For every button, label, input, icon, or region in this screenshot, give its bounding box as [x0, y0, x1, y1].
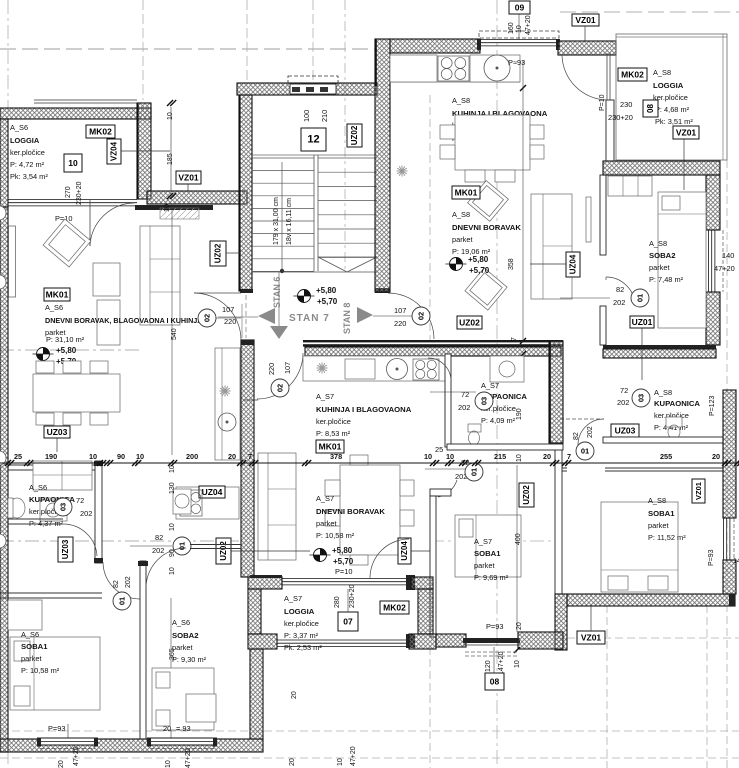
svg-text:20: 20 [58, 760, 65, 768]
kitchen star A_S8 [397, 170, 408, 172]
grid label box 07 [338, 612, 358, 631]
label box MK02 A_S7 loggia [380, 601, 409, 614]
level marker A_S6 [37, 348, 50, 361]
door A_S8 soba2 [606, 277, 635, 306]
kitchen counter A_S7 [303, 356, 447, 381]
wall loggia A_S6 top [0, 108, 151, 119]
svg-text:03: 03 [637, 394, 646, 402]
label box VZ01 recess [176, 171, 201, 184]
svg-text:A_S8: A_S8 [653, 68, 671, 77]
svg-text:SOBA1: SOBA1 [21, 642, 48, 651]
window A_S8 top [480, 39, 557, 41]
svg-text:UZ02: UZ02 [219, 541, 228, 561]
svg-text:A_S8: A_S8 [452, 210, 470, 219]
svg-text:DNEVNI BORAVAK: DNEVNI BORAVAK [452, 223, 521, 232]
svg-text:01: 01 [470, 468, 479, 476]
wall A_S7 loggia right corner [409, 634, 436, 649]
coffee table A_S6 [97, 300, 120, 345]
label box VZ01 bottom A_S8 [577, 631, 605, 644]
grid line vertical x143 top [142, 0, 144, 100]
grid line vertical x430 mid [429, 95, 431, 341]
label box UZ02 A_S8 mid [457, 316, 482, 329]
svg-text:SOBA1: SOBA1 [474, 549, 501, 558]
svg-text:10: 10 [68, 158, 78, 168]
wall below loggia A_S7 [250, 649, 263, 739]
closet A_S6 soba2 [186, 694, 216, 722]
door A_S7 entry [257, 353, 303, 399]
svg-text:02: 02 [417, 312, 426, 320]
label box VZ04 A_S6 [107, 139, 121, 164]
kitchen stove A_S8 [438, 56, 469, 81]
label box UZ02 stairwell [347, 124, 362, 147]
svg-text:VZ01: VZ01 [694, 482, 703, 500]
wc A_S8 [666, 417, 682, 427]
wall A_S8 bottom [567, 594, 735, 606]
svg-text:MK02: MK02 [621, 70, 644, 80]
svg-text:P: 31,10 m²: P: 31,10 m² [46, 335, 85, 344]
wall A_S6 bath bottom [8, 518, 63, 520]
svg-text:230+20: 230+20 [608, 113, 633, 122]
section line y541 right [430, 540, 560, 542]
svg-text:47+20: 47+20 [525, 15, 532, 35]
svg-text:A_S7: A_S7 [316, 494, 334, 503]
svg-text:MK02: MK02 [89, 127, 112, 137]
svg-text:UZ04: UZ04 [400, 541, 409, 561]
grid bubble 1 [0, 206, 6, 220]
door A_S7 loggia arc [370, 539, 409, 578]
shaft hatched below recess [160, 208, 199, 219]
svg-text:ker.pločice: ker.pločice [316, 417, 351, 426]
svg-text:10: 10 [424, 452, 432, 461]
svg-text:200: 200 [186, 452, 198, 461]
door A_S6 entry [194, 292, 241, 294]
wall A_S6 bath top [8, 464, 102, 466]
svg-text:P=123: P=123 [709, 395, 716, 416]
wall bottom band [0, 739, 263, 752]
wall A_S6 soba1/soba2 [140, 561, 146, 739]
svg-text:210: 210 [320, 110, 329, 122]
sofa A_S8 [531, 194, 572, 299]
wall A_S8 kupaonica top [603, 345, 716, 349]
svg-text:P: 8,53 m²: P: 8,53 m² [316, 429, 351, 438]
wall A_S7/A_S8 divider [549, 341, 563, 443]
svg-text:parket: parket [316, 519, 337, 528]
svg-text:230+20: 230+20 [76, 181, 83, 205]
wall A_S7 bath left [445, 354, 451, 447]
svg-text:220: 220 [224, 317, 236, 326]
door circle 02 A_S6 [198, 309, 216, 327]
svg-text:10: 10 [516, 25, 523, 33]
svg-text:LOGGIA: LOGGIA [653, 81, 684, 90]
svg-text:parket: parket [21, 654, 42, 663]
section line y541 [0, 540, 240, 542]
svg-text:220: 220 [394, 319, 406, 328]
window A_S7 loggia bottom [277, 639, 408, 641]
wall A_S8 soba2 right upper [706, 175, 720, 230]
svg-text:parket: parket [649, 263, 670, 272]
grid line horizontal y638 right [555, 637, 739, 639]
arrow down stan6 [270, 326, 288, 339]
svg-text:MK01: MK01 [455, 188, 478, 198]
svg-text:10: 10 [89, 452, 97, 461]
svg-text:130: 130 [169, 482, 176, 494]
svg-text:215: 215 [494, 452, 506, 461]
wall A_S8 loggia bottom [603, 161, 720, 175]
label box UZ01 A_S8 [630, 316, 654, 328]
svg-text:Pk: 3,54 m²: Pk: 3,54 m² [10, 172, 48, 181]
svg-text:A_S8: A_S8 [649, 239, 667, 248]
svg-text:280: 280 [334, 596, 341, 608]
wall A_S7 loggia top left corner [248, 577, 282, 589]
grid line vertical x430 bottom [429, 647, 431, 768]
svg-text:10: 10 [136, 452, 144, 461]
bed A_S6 soba2 [152, 668, 214, 730]
svg-text:parket: parket [172, 643, 193, 652]
svg-text:UZ03: UZ03 [47, 427, 68, 437]
window A_S8 soba2 [708, 230, 710, 292]
kitchen star A_S6 [220, 390, 231, 392]
svg-text:47+20: 47+20 [73, 746, 80, 766]
label box UZ04 A_S6 [199, 486, 225, 498]
svg-text:90: 90 [117, 452, 125, 461]
svg-text:202: 202 [458, 403, 470, 412]
door circle 01 soba2 [631, 289, 649, 307]
svg-text:10: 10 [446, 452, 454, 461]
label box UZ04 A_S7 [398, 538, 411, 564]
shower A_S6 [33, 461, 92, 490]
wall A_S6 soba1 top [0, 592, 102, 594]
label box MK02 loggia A_S6 [86, 125, 115, 138]
svg-text:parket: parket [474, 561, 495, 570]
kitchen star A_S7 [317, 367, 328, 369]
svg-text:MK01: MK01 [46, 290, 69, 300]
svg-text:P: 9,30 m²: P: 9,30 m² [172, 655, 207, 664]
svg-text:02: 02 [203, 314, 212, 322]
level marker A_S7 [314, 549, 327, 562]
wall A_S7 loggia corner sw [248, 634, 277, 649]
grid bubble 2 [0, 275, 6, 289]
svg-text:09: 09 [515, 3, 525, 13]
svg-text:P: 7,48 m²: P: 7,48 m² [649, 275, 684, 284]
svg-text:parket: parket [648, 521, 669, 530]
tv A_S8 [586, 197, 591, 242]
svg-text:72: 72 [620, 386, 628, 395]
grid line vertical x247 top [246, 0, 248, 83]
svg-text:VZ04: VZ04 [110, 141, 119, 161]
wall A_S7 soba1 bottom [436, 634, 466, 647]
svg-text:Pk: 2,53 m²: Pk: 2,53 m² [284, 643, 322, 652]
grid line vertical x707 bottom [706, 605, 708, 768]
sofa A_S7 [258, 453, 296, 560]
door jamb dashes A_S6 entry [245, 295, 247, 338]
svg-text:ker.pločice: ker.pločice [284, 619, 319, 628]
svg-text:MK02: MK02 [383, 603, 406, 613]
svg-text:10: 10 [337, 758, 344, 766]
window loggia A_S6 bottom [8, 199, 137, 201]
wall central below door [241, 340, 254, 577]
loggia A_S6 parapet line [34, 99, 137, 101]
label box VZ01 A_S8 loggia [673, 126, 699, 139]
dimension line main [0, 462, 739, 464]
grid line horizontal y49 [0, 48, 377, 50]
dining table A_S8 [455, 115, 530, 170]
svg-text:UZ02: UZ02 [214, 243, 223, 263]
svg-text:7: 7 [511, 337, 518, 341]
stair landing diagonals [318, 257, 347, 272]
svg-text:107: 107 [222, 305, 234, 314]
svg-text:A_S8: A_S8 [648, 496, 666, 505]
wall A_S8 soba1 top [562, 467, 567, 469]
svg-text:01: 01 [118, 597, 127, 605]
svg-text:A_S7: A_S7 [474, 537, 492, 546]
svg-text:SOBA2: SOBA2 [172, 631, 199, 640]
svg-text:A_S6: A_S6 [29, 483, 47, 492]
svg-text:120: 120 [485, 660, 492, 672]
svg-text:10: 10 [167, 112, 174, 120]
grid line vertical x313 top [312, 0, 314, 80]
svg-text:20: 20 [163, 724, 171, 733]
svg-text:KUPAONICA: KUPAONICA [654, 399, 700, 408]
wall A_S8 bottom step [555, 594, 567, 650]
wall A_S7 top black band [303, 340, 563, 342]
svg-text:= 93: = 93 [176, 724, 191, 733]
svg-text:VZ01: VZ01 [575, 15, 596, 25]
svg-text:20: 20 [712, 452, 720, 461]
door circle 03 A_S7 bath [475, 392, 493, 410]
wall A_S7 bath bottom [447, 444, 563, 450]
arrow right stan8 [357, 307, 373, 323]
svg-text:P: 3,37 m²: P: 3,37 m² [284, 631, 319, 640]
svg-text:47+20: 47+20 [185, 748, 192, 768]
svg-text:P: 9,69 m²: P: 9,69 m² [474, 573, 509, 582]
door circle 01 A_S6 soba1 [173, 537, 191, 555]
washing machine A_S6b [173, 489, 191, 514]
svg-text:P=93: P=93 [48, 724, 65, 733]
svg-text:20: 20 [516, 622, 523, 630]
svg-text:82: 82 [113, 580, 120, 588]
bed A_S8 soba2 [658, 192, 706, 328]
wall loggia A_S6 right [137, 103, 151, 199]
window A_S8 soba1 right [723, 518, 725, 560]
window bottom 2 [150, 738, 215, 746]
label box UZ03 A_S8 [611, 424, 639, 437]
grid line vertical x727 [726, 160, 728, 768]
svg-text:10: 10 [516, 454, 523, 462]
svg-text:KUHINJA I BLAGOVAONA: KUHINJA I BLAGOVAONA [316, 405, 412, 414]
grid line vertical x345 [344, 0, 346, 272]
svg-text:UZ03: UZ03 [615, 426, 636, 436]
label box UZ04 A_S8 [566, 252, 580, 277]
svg-text:A_S7: A_S7 [481, 381, 499, 390]
dining table A_S6 [33, 374, 120, 412]
svg-text:DNEVNI BORAVAK, BLAGOVAONA I K: DNEVNI BORAVAK, BLAGOVAONA I KUHINJA [45, 316, 202, 325]
svg-text:140: 140 [722, 251, 734, 260]
svg-text:255: 255 [660, 452, 672, 461]
svg-text:190: 190 [516, 408, 523, 420]
svg-text:UZ02: UZ02 [522, 485, 531, 505]
svg-text:P=93: P=93 [708, 549, 715, 566]
wall A_S6 soba2 top [190, 544, 241, 546]
svg-text:A_S6: A_S6 [45, 303, 63, 312]
svg-text:20: 20 [289, 758, 296, 766]
svg-text:10: 10 [164, 204, 171, 212]
kitchen stove A_S7 [413, 359, 439, 380]
label box UZ02 A_S7 soba1 [519, 483, 534, 507]
svg-text:+5,80: +5,80 [56, 346, 77, 355]
svg-text:A_S7: A_S7 [316, 392, 334, 401]
svg-text:VZ01: VZ01 [178, 173, 199, 183]
svg-text:10: 10 [169, 465, 176, 473]
svg-text:P=10: P=10 [335, 567, 352, 576]
wall black band below loggia A_S6 [135, 205, 213, 210]
svg-text:+5,80: +5,80 [468, 255, 489, 264]
wall A_S8 top [390, 39, 480, 53]
bed A_S8 soba1 [601, 502, 678, 592]
svg-text:03: 03 [480, 397, 489, 405]
wc A_S7 [468, 424, 481, 432]
door circle 01 A_S7 soba1 [465, 463, 483, 481]
svg-text:A_S6: A_S6 [21, 630, 39, 639]
kitchen counter A_S6 [215, 348, 240, 460]
svg-text:+5,80: +5,80 [332, 546, 353, 555]
svg-text:190: 190 [45, 452, 57, 461]
svg-text:P: 4,09 m²: P: 4,09 m² [481, 416, 516, 425]
label box 10 [64, 154, 82, 172]
wall A_S8 top right [558, 41, 616, 55]
level marker stairwell [298, 290, 311, 303]
svg-text:SOBA1: SOBA1 [648, 509, 675, 518]
svg-text:LOGGIA: LOGGIA [284, 607, 315, 616]
svg-text:UZ04: UZ04 [569, 254, 578, 274]
svg-text:A_S8: A_S8 [654, 388, 672, 397]
door circle 01 A_S8 soba1 [576, 442, 594, 460]
kitchen cabinet A_S7 [345, 359, 375, 379]
door A_S8 entry [388, 293, 434, 339]
svg-text:82: 82 [573, 432, 580, 440]
svg-text:25: 25 [14, 452, 22, 461]
svg-text:230+20: 230+20 [349, 584, 356, 608]
door circle 02 A_S8 [412, 307, 430, 325]
svg-text:08: 08 [490, 677, 500, 687]
svg-text:72: 72 [461, 390, 469, 399]
svg-text:7: 7 [248, 452, 252, 461]
svg-text:179 x 31,00 cm: 179 x 31,00 cm [273, 197, 280, 245]
window stairwell top [290, 84, 336, 94]
svg-text:VZ01: VZ01 [676, 128, 697, 138]
wall left exterior [0, 207, 8, 752]
wall A_S8 soba2 right lower [706, 292, 720, 345]
svg-text:202: 202 [80, 509, 92, 518]
svg-text:+5,70: +5,70 [317, 297, 338, 306]
svg-text:107: 107 [394, 306, 406, 315]
arrow left stan7 [258, 308, 275, 324]
svg-text:202: 202 [613, 298, 625, 307]
grid line vertical x607 bottom [606, 605, 608, 768]
wc A_S6 [9, 498, 25, 518]
svg-text:08: 08 [646, 104, 655, 113]
wall A_S7 soba1 step [430, 489, 451, 496]
side table A_S6 [93, 263, 120, 296]
window bottom 1 [40, 738, 95, 746]
wall A_S8 loggia partition [606, 100, 614, 161]
wall loggia A_S6 left [0, 119, 8, 207]
svg-text:+5,70: +5,70 [469, 266, 490, 275]
svg-text:20: 20 [543, 452, 551, 461]
section line y350 [0, 349, 140, 351]
bed A_S7 soba1 [455, 515, 521, 577]
svg-text:147: 147 [733, 558, 739, 565]
wall A_S8 soba2 partition upper [600, 175, 606, 255]
svg-text:P: 11,52 m²: P: 11,52 m² [648, 533, 686, 542]
window A_S7 loggia top [282, 578, 408, 580]
washbasin A_S6 [40, 500, 67, 521]
door A_S6 loggia [89, 199, 91, 246]
grid label box 08 [485, 673, 504, 690]
label box MK01 A_S8 [452, 186, 480, 199]
svg-text:202: 202 [617, 398, 629, 407]
grid bubble 4 [0, 534, 6, 548]
door A_S7 soba1 [438, 480, 457, 497]
armchair A_S8 n [468, 181, 509, 222]
svg-text:20: 20 [228, 452, 236, 461]
door circle 03 A_S6 bath [54, 498, 72, 516]
grid line horizontal y758 bottom [0, 757, 739, 759]
kitchen sink block A_S8 [470, 55, 520, 82]
svg-text:12: 12 [307, 134, 319, 146]
svg-text:107: 107 [283, 362, 292, 374]
svg-text:03: 03 [59, 503, 68, 511]
svg-text:82: 82 [616, 285, 624, 294]
grid line horizontal y731 bottom [0, 730, 739, 732]
label box MK01 A_S6 [44, 288, 70, 301]
stair outline [252, 154, 377, 156]
armchair A_S6 [43, 219, 91, 267]
wall A_S7 loggia right [411, 577, 433, 589]
svg-text:Pk: 3,51 m²: Pk: 3,51 m² [655, 117, 693, 126]
svg-text:STAN 7: STAN 7 [289, 313, 330, 324]
svg-text:VZ01: VZ01 [581, 633, 602, 643]
grid line vertical x8 [7, 0, 9, 768]
wall A_S6 bath right [95, 461, 102, 563]
svg-text:358: 358 [508, 258, 515, 270]
door A_S8 loggia [606, 53, 608, 100]
label box 08 rotated A_S8 [643, 100, 658, 117]
door circle 03 A_S8 bath [632, 389, 650, 407]
svg-text:10: 10 [514, 660, 521, 668]
svg-text:147+20: 147+20 [498, 651, 505, 675]
grid line vertical x497 [496, 0, 498, 768]
svg-text:P: 4,72 m²: P: 4,72 m² [10, 160, 45, 169]
svg-text:+5,70: +5,70 [333, 557, 354, 566]
door circle 02 A_S7 [271, 379, 289, 397]
stair walk line [281, 162, 283, 271]
svg-text:10: 10 [165, 760, 172, 768]
stair label box 12 [301, 128, 326, 151]
dining chairs A_S6 [36, 361, 54, 373]
svg-text:LOGGIA: LOGGIA [10, 136, 40, 145]
svg-text:10: 10 [169, 523, 176, 531]
loggia A_S8 outline [616, 34, 727, 160]
wall A_S7 soba1 left [430, 496, 436, 637]
kitchen sink A_S6 [218, 413, 236, 431]
svg-text:P: 10,58 m²: P: 10,58 m² [316, 531, 355, 540]
svg-text:100: 100 [302, 110, 311, 122]
wall recess bottom [147, 191, 247, 204]
svg-text:P: 4,68 m²: P: 4,68 m² [655, 105, 690, 114]
svg-text:47+20: 47+20 [350, 746, 357, 766]
sofa A_S6 [140, 226, 180, 325]
label box UZ02 A_S7 [216, 538, 231, 564]
